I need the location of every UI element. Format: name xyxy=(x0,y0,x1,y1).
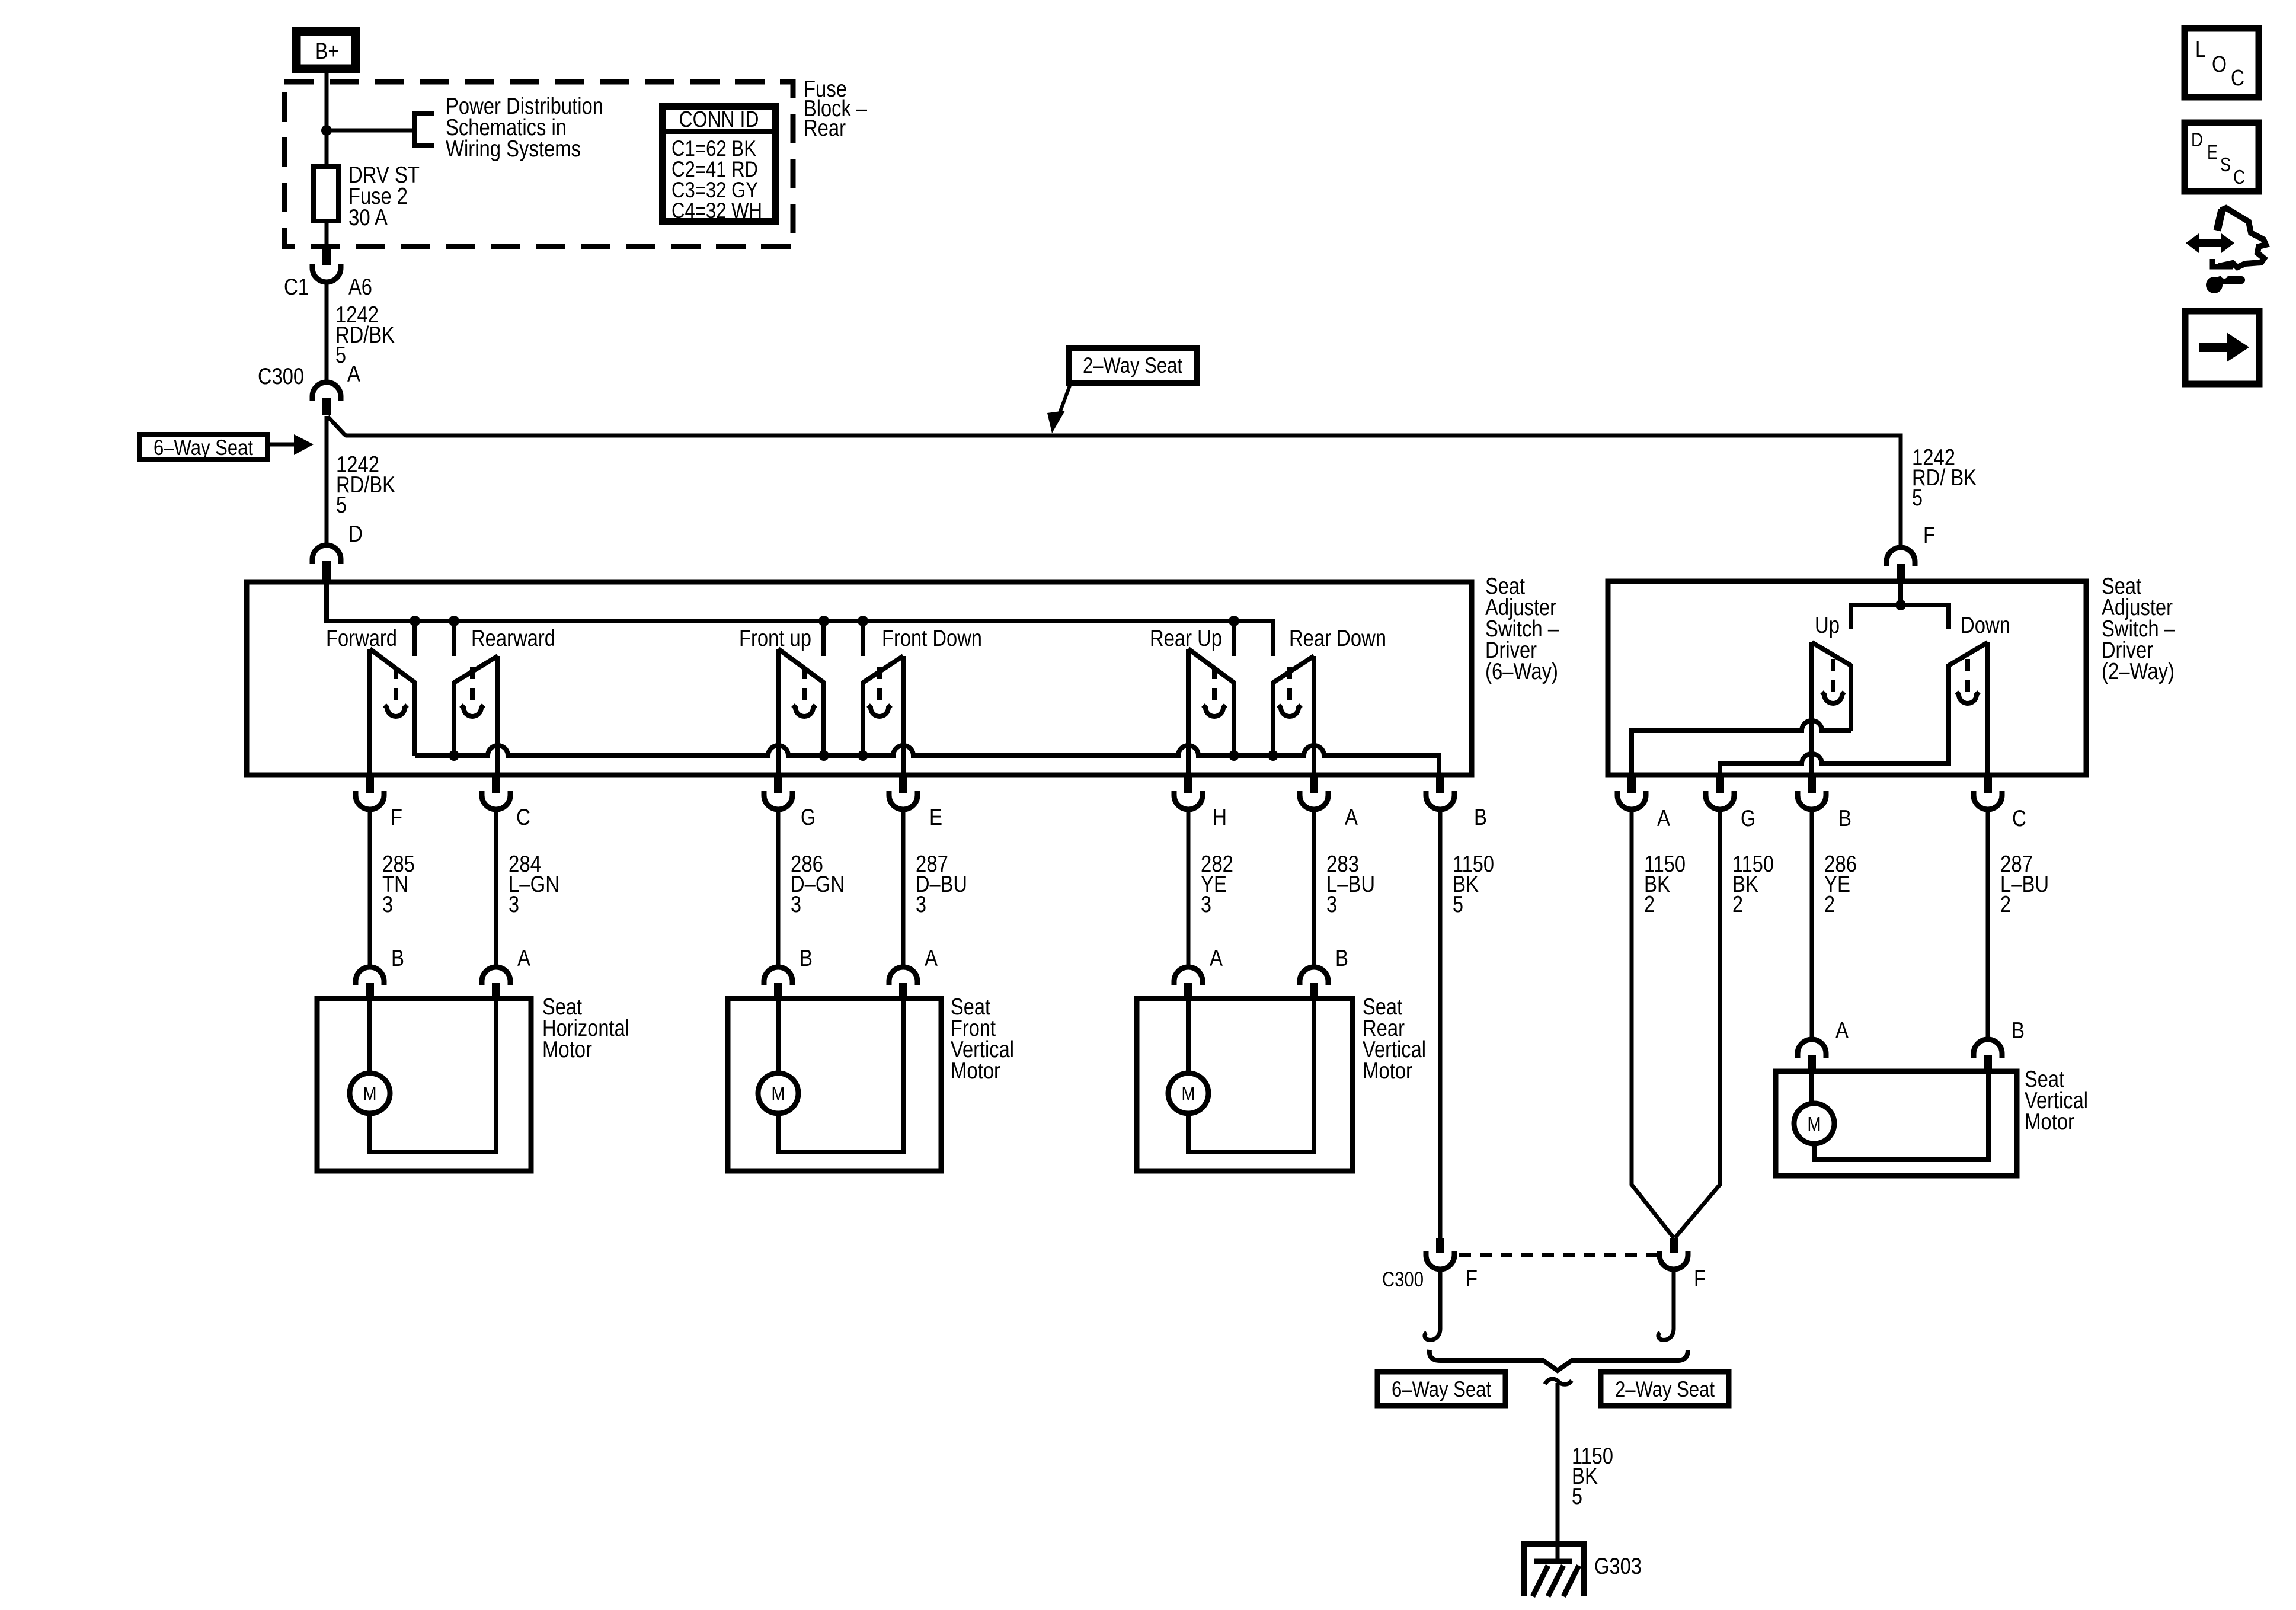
connector pin F of 6-way switch xyxy=(366,777,374,793)
wire 286 D-GN 3 xyxy=(776,809,781,967)
svg-text:C300: C300 xyxy=(258,364,304,389)
motor internal wiring xyxy=(370,998,496,1152)
bus junction dot at 766 xyxy=(449,750,459,761)
label Seat Adjuster Switch - Driver (6-Way) xyxy=(1485,574,1559,684)
svg-text:S: S xyxy=(2220,153,2231,175)
svg-text:3: 3 xyxy=(1326,892,1337,917)
svg-text:2: 2 xyxy=(1824,892,1835,917)
svg-text:6–Way Seat: 6–Way Seat xyxy=(154,436,254,460)
svg-text:C1: C1 xyxy=(284,274,309,300)
label Seat Front Vertical Motor xyxy=(951,994,1014,1084)
svg-text:B: B xyxy=(1474,805,1487,830)
connector pin A of seat front vertical motor xyxy=(889,967,917,985)
wire label 287 L–BU 2 xyxy=(2000,852,2049,917)
motor seat vertical motor (2-way) xyxy=(1776,1071,2017,1176)
svg-text:2–Way Seat: 2–Way Seat xyxy=(1615,1377,1715,1401)
bus junction dot at 1390 xyxy=(818,750,829,761)
svg-text:B: B xyxy=(2012,1018,2025,1044)
svg-text:M: M xyxy=(1808,1113,1821,1135)
svg-text:Down: Down xyxy=(1961,613,2010,638)
svg-text:Rearward: Rearward xyxy=(471,626,555,651)
svg-text:H: H xyxy=(1213,805,1227,830)
svg-text:Rear Down: Rear Down xyxy=(1289,626,1386,651)
svg-text:E: E xyxy=(929,805,942,830)
switch contact Up xyxy=(1812,642,1851,777)
switch contact Rearward xyxy=(454,656,498,777)
switch contact Rear Down xyxy=(1273,656,1314,777)
svg-text:A: A xyxy=(925,946,938,971)
feed stub at x=1456 xyxy=(861,621,865,656)
wire label 282 YE 3 xyxy=(1201,852,1233,917)
connector pin A of seat horizontal motor xyxy=(482,967,510,985)
wire label 1150 BK 5 xyxy=(1453,852,1494,917)
connector pin E of 6-way switch xyxy=(899,777,907,793)
CONN ID table xyxy=(663,107,775,223)
connector pin B of seat front vertical motor xyxy=(764,967,792,985)
icon LOC box xyxy=(2185,28,2259,97)
wire label 1150 BK 2 xyxy=(1644,852,1686,917)
wire label 1242 RD/BK 5 xyxy=(335,302,395,368)
label Seat Horizontal Motor xyxy=(542,994,629,1062)
connector C1 pin A6 xyxy=(322,248,331,265)
internal ground bus to pin B xyxy=(412,683,417,753)
bracket for power distribution note xyxy=(415,114,434,146)
feed stub at x=2082 xyxy=(1232,621,1236,656)
svg-text:(2–Way): (2–Way) xyxy=(2102,659,2175,684)
wires 1150 BK 2 converge to C300 F xyxy=(1632,809,1674,1238)
connector pin C of 6-way switch xyxy=(492,777,500,793)
svg-text:F: F xyxy=(1923,523,1935,548)
svg-text:5: 5 xyxy=(1453,892,1463,917)
icon DESC box xyxy=(2185,123,2259,191)
wire label 1242 RD/BK 5 (below branch) xyxy=(336,452,395,518)
motor internal wiring xyxy=(1812,1071,1988,1160)
wire label 1150 BK 5 xyxy=(1572,1443,1613,1509)
svg-text:Forward: Forward xyxy=(326,626,397,651)
motor internal wiring xyxy=(1188,998,1314,1152)
switch contact Front up xyxy=(778,649,824,777)
wire Down common to pin G xyxy=(1720,754,1949,777)
svg-text:C: C xyxy=(2231,66,2244,91)
svg-text:CONN ID: CONN ID xyxy=(679,107,759,132)
svg-text:Front up: Front up xyxy=(739,626,811,651)
svg-text:B: B xyxy=(800,946,813,971)
wire label 284 L–GN 3 xyxy=(509,852,559,917)
svg-text:L: L xyxy=(2195,37,2206,62)
seat adjuster switch driver 6-way box xyxy=(247,582,1472,775)
wire 282 YE 3 xyxy=(1187,809,1191,967)
switch contact Forward xyxy=(370,649,415,777)
svg-text:Motor: Motor xyxy=(2025,1109,2074,1135)
connector pin A of 6-way switch xyxy=(1310,777,1318,793)
svg-text:E: E xyxy=(2207,141,2218,163)
svg-text:Up: Up xyxy=(1815,613,1840,638)
svg-text:D: D xyxy=(2191,129,2203,151)
svg-text:B: B xyxy=(391,946,404,971)
svg-text:M: M xyxy=(772,1083,785,1105)
brace grouping C300 grounds xyxy=(1430,1350,1688,1371)
svg-text:B+: B+ xyxy=(315,39,339,64)
wire label 286 YE 2 xyxy=(1824,852,1857,917)
svg-text:Front Down: Front Down xyxy=(882,626,982,651)
C300 dashed connector line xyxy=(1459,1253,1658,1257)
svg-text:C: C xyxy=(2012,806,2026,831)
connector pin B of 2-way switch xyxy=(1808,777,1816,793)
motor internal wiring xyxy=(778,998,903,1152)
wire Up common to pin A xyxy=(1632,721,1851,777)
label Seat Rear Vertical Motor xyxy=(1363,994,1426,1084)
wire 287 D-BU 3 xyxy=(901,809,906,967)
connector pin C of 2-way switch xyxy=(1984,777,1992,793)
svg-text:3: 3 xyxy=(509,892,519,917)
svg-text:D: D xyxy=(348,521,363,547)
bus junction dot at 1456 xyxy=(858,750,868,761)
svg-text:3: 3 xyxy=(916,892,926,917)
motor M symbol xyxy=(758,1073,798,1113)
feed stub at x=766 xyxy=(452,621,456,656)
icon seat adjuster glyph xyxy=(2186,208,2266,293)
svg-text:F: F xyxy=(391,805,402,830)
connector pin G of 6-way switch xyxy=(774,777,782,793)
svg-text:A: A xyxy=(1835,1018,1849,1044)
svg-text:2: 2 xyxy=(2000,892,2011,917)
svg-text:6–Way Seat: 6–Way Seat xyxy=(1392,1377,1492,1401)
wire label 1150 BK 2 xyxy=(1732,852,1774,917)
battery B+ terminal box xyxy=(296,31,356,69)
motor M symbol xyxy=(1168,1073,1208,1113)
label Seat Vertical Motor xyxy=(2025,1067,2088,1135)
connector pin B of seat horizontal motor xyxy=(356,967,384,985)
svg-text:5: 5 xyxy=(1572,1484,1582,1509)
wire junction to schematics bracket xyxy=(327,129,415,133)
wire label 1242 RD/ BK 5 (right side) xyxy=(1912,445,1977,511)
svg-text:A: A xyxy=(517,946,530,971)
wire 1150 BK 5 from pin B to C300 xyxy=(1438,809,1443,1238)
switch contact Down xyxy=(1949,642,1988,777)
motor seat rear vertical motor xyxy=(1137,998,1352,1171)
motor M symbol xyxy=(1794,1103,1834,1144)
junction node in fuse block xyxy=(321,125,332,136)
svg-text:2: 2 xyxy=(1644,892,1655,917)
wire 285 TN 3 xyxy=(368,809,372,967)
wire label 287 D–BU 3 xyxy=(916,852,967,917)
svg-text:G: G xyxy=(801,805,816,830)
svg-text:A: A xyxy=(347,361,360,387)
wire 1150 BK 5 to ground xyxy=(1545,1379,1572,1384)
motor seat horizontal motor xyxy=(317,998,531,1171)
svg-text:5: 5 xyxy=(1912,485,1923,511)
svg-text:Rear: Rear xyxy=(804,116,846,141)
svg-text:F: F xyxy=(1694,1266,1706,1292)
svg-text:F: F xyxy=(1466,1266,1478,1292)
connector C300 pin F (6-way side) xyxy=(1436,1238,1444,1253)
connector C300 pin F (2-way side) xyxy=(1670,1238,1678,1253)
svg-text:Wiring Systems: Wiring Systems xyxy=(446,136,581,162)
wire label 285 TN 3 xyxy=(382,852,415,917)
wire label 283 L–BU 3 xyxy=(1326,852,1375,917)
wire 284 L-GN 3 xyxy=(494,809,498,967)
motor seat front vertical motor xyxy=(728,998,941,1171)
label box 2-Way Seat with arrow (top) xyxy=(1047,348,1197,433)
feed stub at x=700 xyxy=(412,621,417,656)
seat adjuster switch driver 2-way box xyxy=(1608,581,2086,775)
svg-text:C300: C300 xyxy=(1382,1268,1424,1291)
label Fuse Block - Rear xyxy=(804,76,867,141)
svg-text:C: C xyxy=(2233,166,2245,188)
branch wire to 2-way seat circuit xyxy=(328,417,1901,548)
connector pin B of seat vertical motor xyxy=(1974,1039,2002,1058)
fuse DRV ST Fuse 2 30 A xyxy=(314,162,420,231)
svg-text:A: A xyxy=(1345,805,1358,830)
svg-text:M: M xyxy=(1182,1083,1195,1105)
connector pin A of seat vertical motor xyxy=(1798,1039,1826,1058)
wire label 286 D–GN 3 xyxy=(791,852,845,917)
svg-text:Motor: Motor xyxy=(542,1037,592,1062)
svg-text:A6: A6 xyxy=(348,274,372,300)
internal B+ feed bus (from D) xyxy=(327,584,1273,656)
svg-text:5: 5 xyxy=(335,343,346,368)
wire 286 YE 2 to motor xyxy=(1810,809,1814,1039)
svg-text:C: C xyxy=(516,805,530,830)
label box 6-Way Seat (bottom) xyxy=(1377,1372,1505,1406)
wire B+ to junction xyxy=(325,69,329,167)
svg-text:B: B xyxy=(1838,806,1851,831)
svg-text:Motor: Motor xyxy=(951,1058,1000,1084)
wire 283 L-BU 3 xyxy=(1312,809,1316,967)
svg-text:30 A: 30 A xyxy=(348,205,388,231)
wire 1242 RD/BK 5 segment C1 to C300 xyxy=(325,282,329,382)
label box 2-Way Seat (bottom) xyxy=(1601,1372,1729,1406)
internal feed from F xyxy=(1898,581,1903,605)
svg-text:O: O xyxy=(2212,52,2227,77)
svg-text:2: 2 xyxy=(1732,892,1743,917)
svg-text:G: G xyxy=(1741,806,1755,831)
bus junction dot at 2148 xyxy=(1268,750,1278,761)
svg-text:5: 5 xyxy=(336,492,347,518)
label box 6-Way Seat with arrow xyxy=(139,434,314,460)
connector pin B of seat rear vertical motor xyxy=(1300,967,1328,985)
connector pin B of 6-way switch xyxy=(1436,777,1444,793)
label Seat Adjuster Switch - Driver (2-Way) xyxy=(2102,574,2175,684)
svg-text:C4=32 WH: C4=32 WH xyxy=(671,199,762,223)
svg-text:G303: G303 xyxy=(1594,1554,1642,1579)
bus junction dot at 2082 xyxy=(1229,750,1239,761)
svg-text:Rear Up: Rear Up xyxy=(1150,626,1222,651)
wire below left F xyxy=(1438,1269,1443,1329)
ground G303 xyxy=(1524,1544,1584,1596)
svg-text:A: A xyxy=(1210,946,1223,971)
note: Power Distribution Schematics in Wiring Systems xyxy=(446,94,603,162)
svg-text:3: 3 xyxy=(791,892,801,917)
feed stub at x=1390 xyxy=(821,621,826,656)
svg-text:(6–Way): (6–Way) xyxy=(1485,659,1558,684)
icon forward navigation arrow box xyxy=(2185,311,2259,384)
motor M symbol xyxy=(350,1073,390,1113)
svg-text:B: B xyxy=(1335,946,1348,971)
switch contact Rear Up xyxy=(1188,649,1234,777)
svg-text:A: A xyxy=(1657,806,1670,831)
connector pin H of 6-way switch xyxy=(1184,777,1192,793)
svg-text:2–Way Seat: 2–Way Seat xyxy=(1083,353,1183,377)
svg-text:M: M xyxy=(363,1083,377,1105)
wrench part xyxy=(2217,276,2245,284)
feed bracket xyxy=(1851,605,1949,629)
connector pin A of seat rear vertical motor xyxy=(1174,967,1203,985)
switch contact Front Down xyxy=(863,656,903,777)
svg-text:Motor: Motor xyxy=(1363,1058,1412,1084)
wire fuse to C1 xyxy=(325,221,329,249)
wire C300 to D xyxy=(325,416,329,545)
svg-text:3: 3 xyxy=(1201,892,1211,917)
svg-text:3: 3 xyxy=(382,892,393,917)
connector pin A of 2-way switch xyxy=(1627,777,1636,793)
fuse block dashed border xyxy=(284,82,793,247)
connector pin G of 2-way switch xyxy=(1716,777,1724,793)
wire below right F xyxy=(1672,1269,1676,1329)
wire 287 L-BU 2 to motor xyxy=(1986,809,1990,1039)
